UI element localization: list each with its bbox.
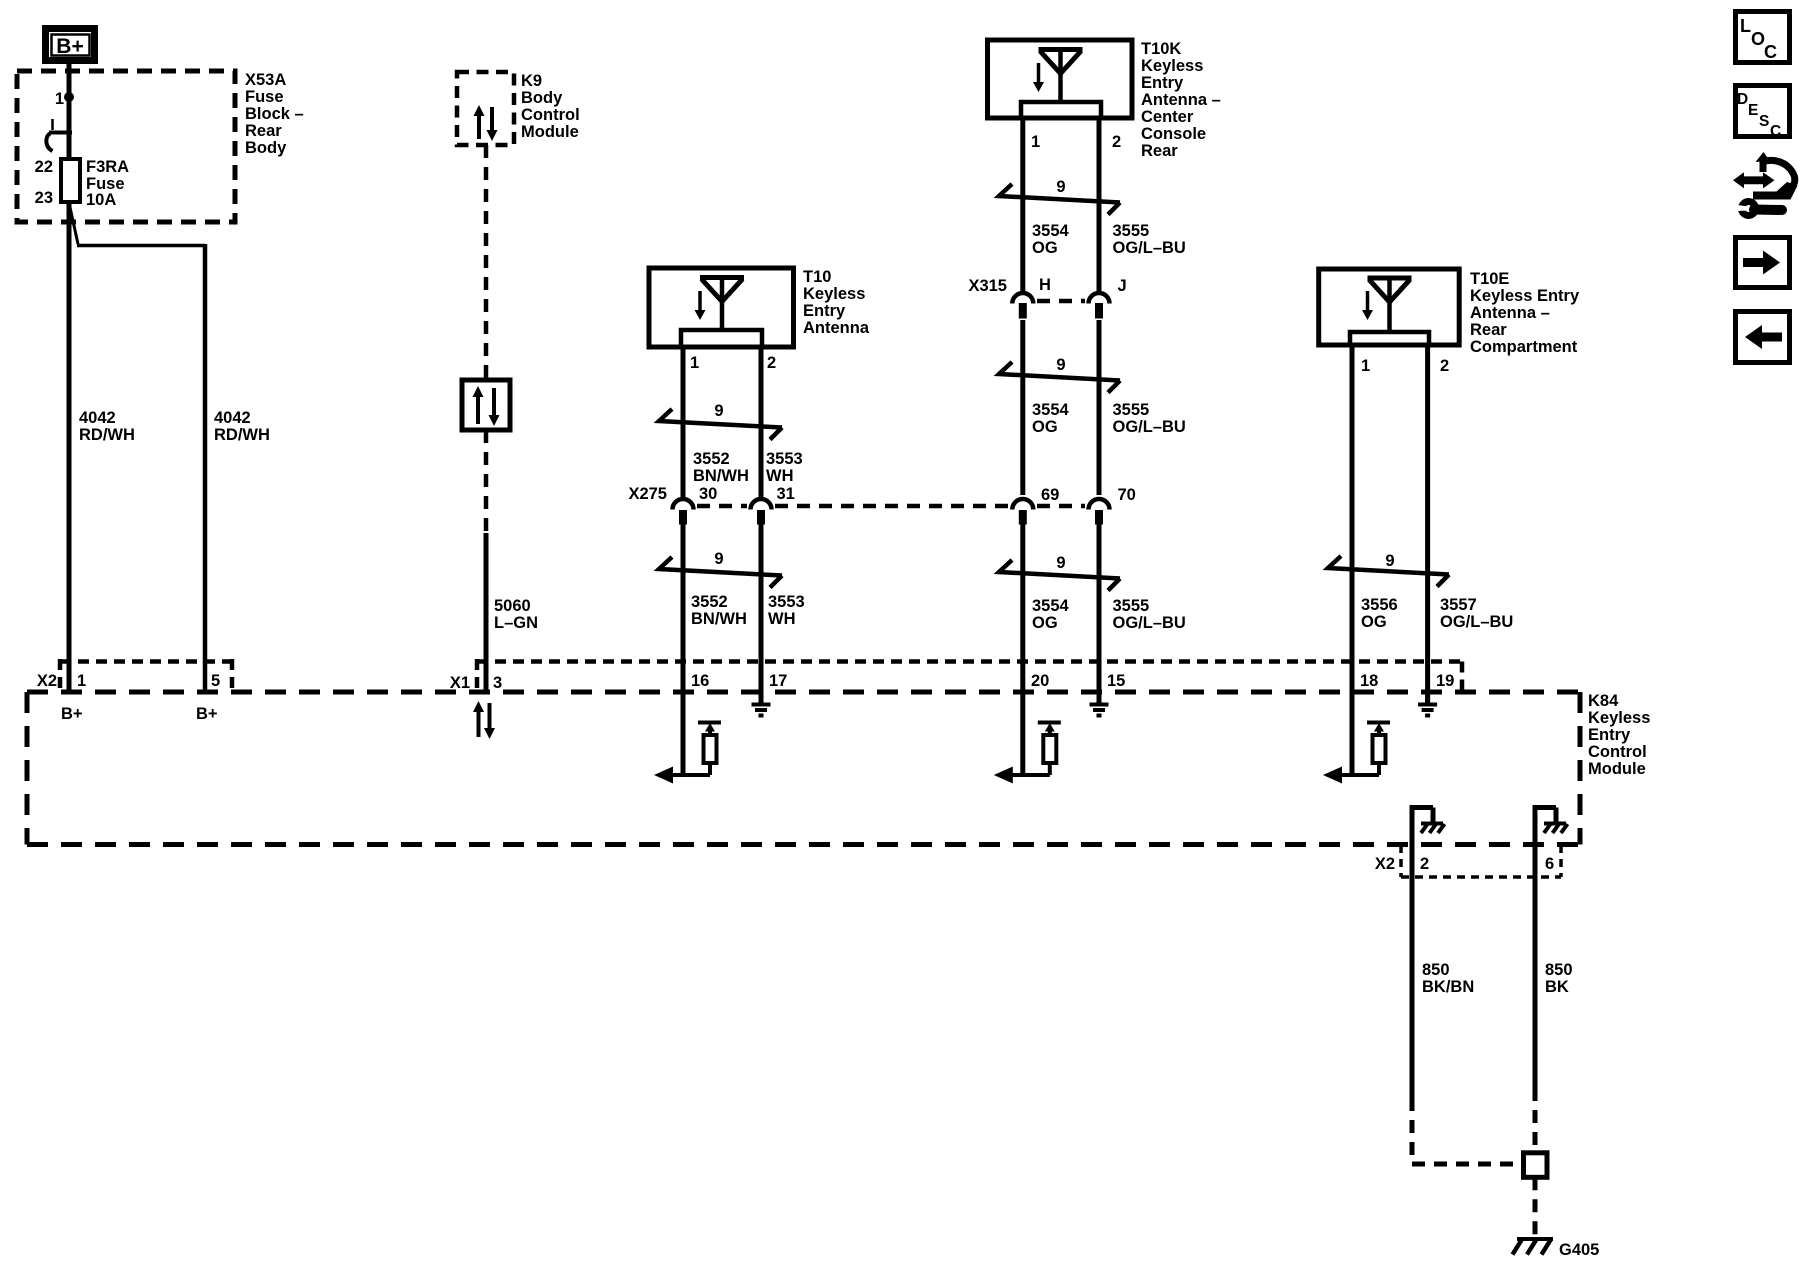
fuse F3RA 10A: [61, 159, 80, 202]
twisted pair symbol 9: [659, 409, 782, 440]
svg-text:70: 70: [1118, 486, 1136, 504]
svg-text:G405: G405: [1559, 1241, 1599, 1259]
svg-text:K84: K84: [1588, 692, 1619, 710]
svg-text:3553: 3553: [768, 593, 805, 611]
svg-text:850: 850: [1422, 961, 1450, 979]
label T10K Keyless Entry Antenna Center Console Rear: [1141, 40, 1221, 160]
label K9 Body Control Module: [521, 72, 580, 141]
twisted pair symbol 9 (second): [659, 557, 782, 588]
connector X275 dashed link 69-70: [1037, 504, 1085, 509]
wire label 3553 WH: [766, 450, 803, 485]
internal ground wire pin 6: [1533, 808, 1557, 846]
wire K9 to serial-data box (dashed): [484, 145, 489, 380]
connector X2 (right) dotted box: [1401, 845, 1561, 877]
svg-text:9: 9: [1056, 356, 1065, 374]
wire T10E pin1 down: [1350, 345, 1355, 775]
svg-text:3554: 3554: [1032, 401, 1070, 419]
svg-text:Fuse: Fuse: [245, 88, 284, 106]
icon forward arrow: [1736, 238, 1790, 288]
icon flow navigate (double arrow + wrench): [1733, 152, 1798, 216]
svg-text:E: E: [1748, 102, 1758, 119]
svg-text:X2: X2: [37, 672, 57, 690]
svg-text:OG/L–BU: OG/L–BU: [1113, 418, 1186, 436]
wire 3552 below connector: [681, 525, 686, 776]
svg-text:OG: OG: [1361, 613, 1387, 631]
svg-text:Block –: Block –: [245, 105, 304, 123]
svg-text:RD/WH: RD/WH: [79, 426, 135, 444]
svg-text:23: 23: [35, 189, 53, 207]
svg-text:T10K: T10K: [1141, 40, 1181, 58]
svg-text:X53A: X53A: [245, 71, 286, 89]
svg-text:6: 6: [1545, 855, 1554, 873]
wire 3555 below X315: [1097, 320, 1102, 495]
svg-text:Antenna: Antenna: [803, 319, 870, 337]
wire T10K pin2 down: [1097, 118, 1102, 292]
svg-text:WH: WH: [768, 610, 796, 628]
svg-text:Entry: Entry: [1588, 726, 1631, 744]
clip symbol at fuse block feed: [46, 119, 72, 151]
K84 antenna drive resistor (T10E): [1331, 723, 1390, 776]
connector X275 dashed line to pins 69/70: [697, 504, 1009, 509]
wire label 3555 OG/L-BU: [1113, 222, 1186, 257]
K84 antenna drive resistor (T10): [662, 723, 721, 776]
svg-text:BN/WH: BN/WH: [691, 610, 747, 628]
svg-text:2: 2: [767, 354, 776, 372]
svg-text:19: 19: [1436, 672, 1454, 690]
wire serial box down dashed then solid 5060 L-GN: [484, 430, 489, 533]
svg-text:Control: Control: [521, 106, 580, 124]
wire fuse to X2 pin 1 (4042 RD/WH): [67, 202, 72, 692]
svg-text:9: 9: [1385, 552, 1394, 570]
svg-text:D: D: [1737, 91, 1748, 108]
svg-text:B+: B+: [56, 35, 83, 58]
label X53A Fuse Block - Rear Body: [245, 71, 304, 157]
svg-text:Antenna –: Antenna –: [1470, 304, 1550, 322]
splice S-box: [1524, 1153, 1548, 1178]
wire 3555 below connector: [1097, 525, 1102, 704]
wire 850 BK/BN solid: [1410, 845, 1415, 1098]
ground at pin 15: [1090, 692, 1109, 716]
icon LOC: [1736, 12, 1790, 63]
connector X315 dashed link: [1037, 299, 1085, 304]
label T10 Keyless Entry Antenna: [803, 268, 870, 337]
svg-text:T10E: T10E: [1470, 270, 1509, 288]
K84 antenna drive resistor (T10K): [1002, 723, 1061, 776]
svg-text:1: 1: [1361, 357, 1370, 375]
svg-text:Module: Module: [521, 123, 579, 141]
twisted pair symbol 9: [1328, 556, 1449, 587]
svg-text:18: 18: [1360, 672, 1378, 690]
fuse block X53A dashed box: [17, 71, 235, 222]
B+ power symbol: [46, 29, 95, 61]
twisted pair symbol 9 (lower middle): [999, 560, 1120, 591]
svg-text:3552: 3552: [693, 450, 730, 468]
svg-text:OG: OG: [1032, 239, 1058, 257]
svg-text:B+: B+: [196, 705, 218, 723]
connector X275 pin 69 terminal: [1012, 499, 1033, 525]
svg-text:3555: 3555: [1113, 597, 1150, 615]
svg-text:Keyless: Keyless: [1588, 709, 1650, 727]
svg-text:4042: 4042: [79, 409, 116, 427]
ground G405 symbol: [1513, 1239, 1554, 1255]
wire 3553 below connector: [759, 525, 764, 704]
svg-text:K9: K9: [521, 72, 542, 90]
svg-text:BK/BN: BK/BN: [1422, 978, 1474, 996]
connector X315 pin J terminal: [1089, 293, 1110, 319]
svg-text:B+: B+: [61, 705, 83, 723]
serial data link box: [462, 380, 510, 430]
label T10E Keyless Entry Antenna Rear Compartment: [1470, 270, 1580, 356]
wire 850 BK dashed to splice: [1533, 1088, 1538, 1152]
svg-text:T10: T10: [803, 268, 831, 286]
wire T10 pin2 down: [759, 347, 764, 497]
signal arrow out (T10E): [1323, 767, 1342, 784]
svg-text:WH: WH: [766, 467, 794, 485]
svg-text:Antenna –: Antenna –: [1141, 91, 1221, 109]
ground at pin 19: [1418, 692, 1437, 716]
connector X275 pin 31 terminal: [751, 499, 772, 524]
svg-text:F3RA: F3RA: [86, 158, 129, 176]
svg-text:Body: Body: [521, 89, 563, 107]
svg-text:9: 9: [714, 402, 723, 420]
wire B+ to fuse: [67, 61, 72, 159]
svg-text:17: 17: [769, 672, 787, 690]
svg-text:Center: Center: [1141, 108, 1194, 126]
svg-text:S: S: [1759, 113, 1769, 130]
svg-text:9: 9: [1056, 178, 1065, 196]
wire 850 BK solid: [1533, 845, 1538, 1088]
svg-text:3554: 3554: [1032, 597, 1070, 615]
svg-text:30: 30: [699, 485, 717, 503]
svg-text:X315: X315: [968, 277, 1007, 295]
svg-text:2: 2: [1420, 855, 1429, 873]
wire label 3555 OG/L-BU (low): [1113, 597, 1186, 632]
svg-text:9: 9: [1056, 554, 1065, 572]
svg-text:3554: 3554: [1032, 222, 1070, 240]
svg-text:C: C: [1764, 42, 1777, 62]
svg-text:1: 1: [1031, 133, 1040, 151]
svg-text:OG: OG: [1032, 418, 1058, 436]
svg-text:Rear: Rear: [1470, 321, 1507, 339]
wire label 3555 OG/L-BU (mid): [1113, 401, 1186, 436]
svg-text:1: 1: [690, 354, 699, 372]
wire T10K pin1 down: [1020, 118, 1025, 292]
svg-text:OG/L–BU: OG/L–BU: [1113, 614, 1186, 632]
wire label 3553 WH (lower): [768, 593, 805, 628]
svg-text:Entry: Entry: [1141, 74, 1184, 92]
svg-text:69: 69: [1041, 486, 1059, 504]
internal ground wire pin 2: [1410, 808, 1434, 846]
svg-text:1: 1: [55, 90, 64, 108]
wire 3554 below connector: [1020, 525, 1025, 776]
K84 module dashed boundary: [27, 692, 1580, 845]
wire label 5060 L-GN: [494, 597, 538, 632]
svg-text:4042: 4042: [214, 409, 251, 427]
wire T10E pin2 down: [1425, 345, 1430, 703]
wire label 3557 OG/L-BU: [1440, 596, 1513, 631]
svg-text:5060: 5060: [494, 597, 531, 615]
svg-text:3552: 3552: [691, 593, 728, 611]
body control module K9 dashed box: [457, 72, 514, 145]
svg-text:OG/L–BU: OG/L–BU: [1440, 613, 1513, 631]
internal chassis ground symbol (pin 6): [1544, 824, 1568, 834]
wire label 3554 OG (low): [1032, 597, 1070, 632]
icon back arrow: [1736, 312, 1790, 363]
svg-text:BN/WH: BN/WH: [693, 467, 749, 485]
svg-text:850: 850: [1545, 961, 1573, 979]
svg-text:9: 9: [714, 550, 723, 568]
antenna T10K box: [988, 40, 1133, 118]
svg-text:Body: Body: [245, 139, 287, 157]
signal arrow out (T10K): [994, 767, 1013, 784]
svg-text:Keyless: Keyless: [1141, 57, 1203, 75]
svg-text:20: 20: [1031, 672, 1049, 690]
twisted pair symbol 9: [999, 184, 1120, 215]
svg-text:Compartment: Compartment: [1470, 338, 1578, 356]
wire label 3554 OG: [1032, 222, 1070, 257]
signal arrow out (T10): [654, 767, 673, 784]
wire label 850 BK: [1545, 961, 1573, 996]
svg-text:Entry: Entry: [803, 302, 846, 320]
wire 3554 below X315: [1020, 320, 1025, 495]
wire T10 pin1 down: [681, 347, 686, 497]
svg-text:L: L: [1740, 16, 1751, 36]
svg-text:Module: Module: [1588, 760, 1646, 778]
svg-text:2: 2: [1440, 357, 1449, 375]
svg-text:H: H: [1039, 276, 1051, 294]
svg-text:3553: 3553: [766, 450, 803, 468]
svg-text:C: C: [1770, 123, 1781, 140]
svg-text:16: 16: [691, 672, 709, 690]
connector dotted line X2 left box: [60, 659, 232, 692]
svg-text:X275: X275: [628, 485, 667, 503]
connector X275 pin 70 terminal: [1089, 499, 1110, 524]
svg-text:X2: X2: [1375, 855, 1395, 873]
svg-text:BK: BK: [1545, 978, 1569, 996]
svg-text:31: 31: [777, 485, 795, 503]
svg-text:15: 15: [1107, 672, 1125, 690]
svg-text:O: O: [1751, 29, 1765, 49]
svg-text:3555: 3555: [1113, 222, 1150, 240]
connector X275 pin 30 terminal: [673, 499, 694, 524]
svg-text:3557: 3557: [1440, 596, 1477, 614]
node pin 1 of X53A: [64, 92, 74, 102]
internal chassis ground symbol (pin 2): [1421, 824, 1445, 834]
svg-text:3556: 3556: [1361, 596, 1398, 614]
X1 serial arrows inside module: [473, 701, 495, 739]
icon DESC: [1736, 86, 1790, 141]
svg-text:OG/L–BU: OG/L–BU: [1113, 239, 1186, 257]
svg-text:10A: 10A: [86, 191, 116, 209]
antenna T10 box: [649, 268, 794, 347]
svg-text:22: 22: [35, 158, 53, 176]
twisted pair symbol 9 (middle): [999, 362, 1120, 393]
connector dotted line X1 to pin 19: [477, 659, 1462, 692]
svg-text:3555: 3555: [1113, 401, 1150, 419]
wire label 4042 RD/WH (right): [214, 409, 270, 444]
K9 serial data arrows: [474, 105, 498, 141]
svg-text:L–GN: L–GN: [494, 614, 538, 632]
wire label 3556 OG: [1361, 596, 1398, 631]
svg-text:X1: X1: [450, 674, 470, 692]
wire label 850 BK/BN: [1422, 961, 1474, 996]
wire 850 BK/BN dashed to splice: [1412, 1098, 1521, 1164]
svg-text:2: 2: [1112, 133, 1121, 151]
svg-text:Console: Console: [1141, 125, 1206, 143]
svg-text:Keyless: Keyless: [803, 285, 865, 303]
wire branch to pin 5: [70, 205, 206, 692]
svg-text:OG: OG: [1032, 614, 1058, 632]
connector X315 pin H terminal: [1012, 293, 1033, 319]
svg-text:3: 3: [493, 674, 502, 692]
wire label 3554 OG (mid): [1032, 401, 1070, 436]
svg-text:J: J: [1118, 277, 1127, 295]
wire label 3552 BN/WH: [693, 450, 749, 485]
antenna T10E box: [1319, 269, 1460, 345]
svg-text:5: 5: [211, 672, 220, 690]
svg-text:Rear: Rear: [245, 122, 282, 140]
svg-text:Keyless Entry: Keyless Entry: [1470, 287, 1580, 305]
svg-text:Control: Control: [1588, 743, 1647, 761]
wire splice to ground dashed: [1533, 1177, 1538, 1237]
svg-text:RD/WH: RD/WH: [214, 426, 270, 444]
svg-text:Rear: Rear: [1141, 142, 1178, 160]
wire label 4042 RD/WH (left): [79, 409, 135, 444]
wire label 3552 BN/WH (lower): [691, 593, 747, 628]
svg-text:1: 1: [77, 672, 86, 690]
ground at pin 17: [752, 692, 771, 716]
label K84 Keyless Entry Control Module: [1588, 692, 1650, 778]
